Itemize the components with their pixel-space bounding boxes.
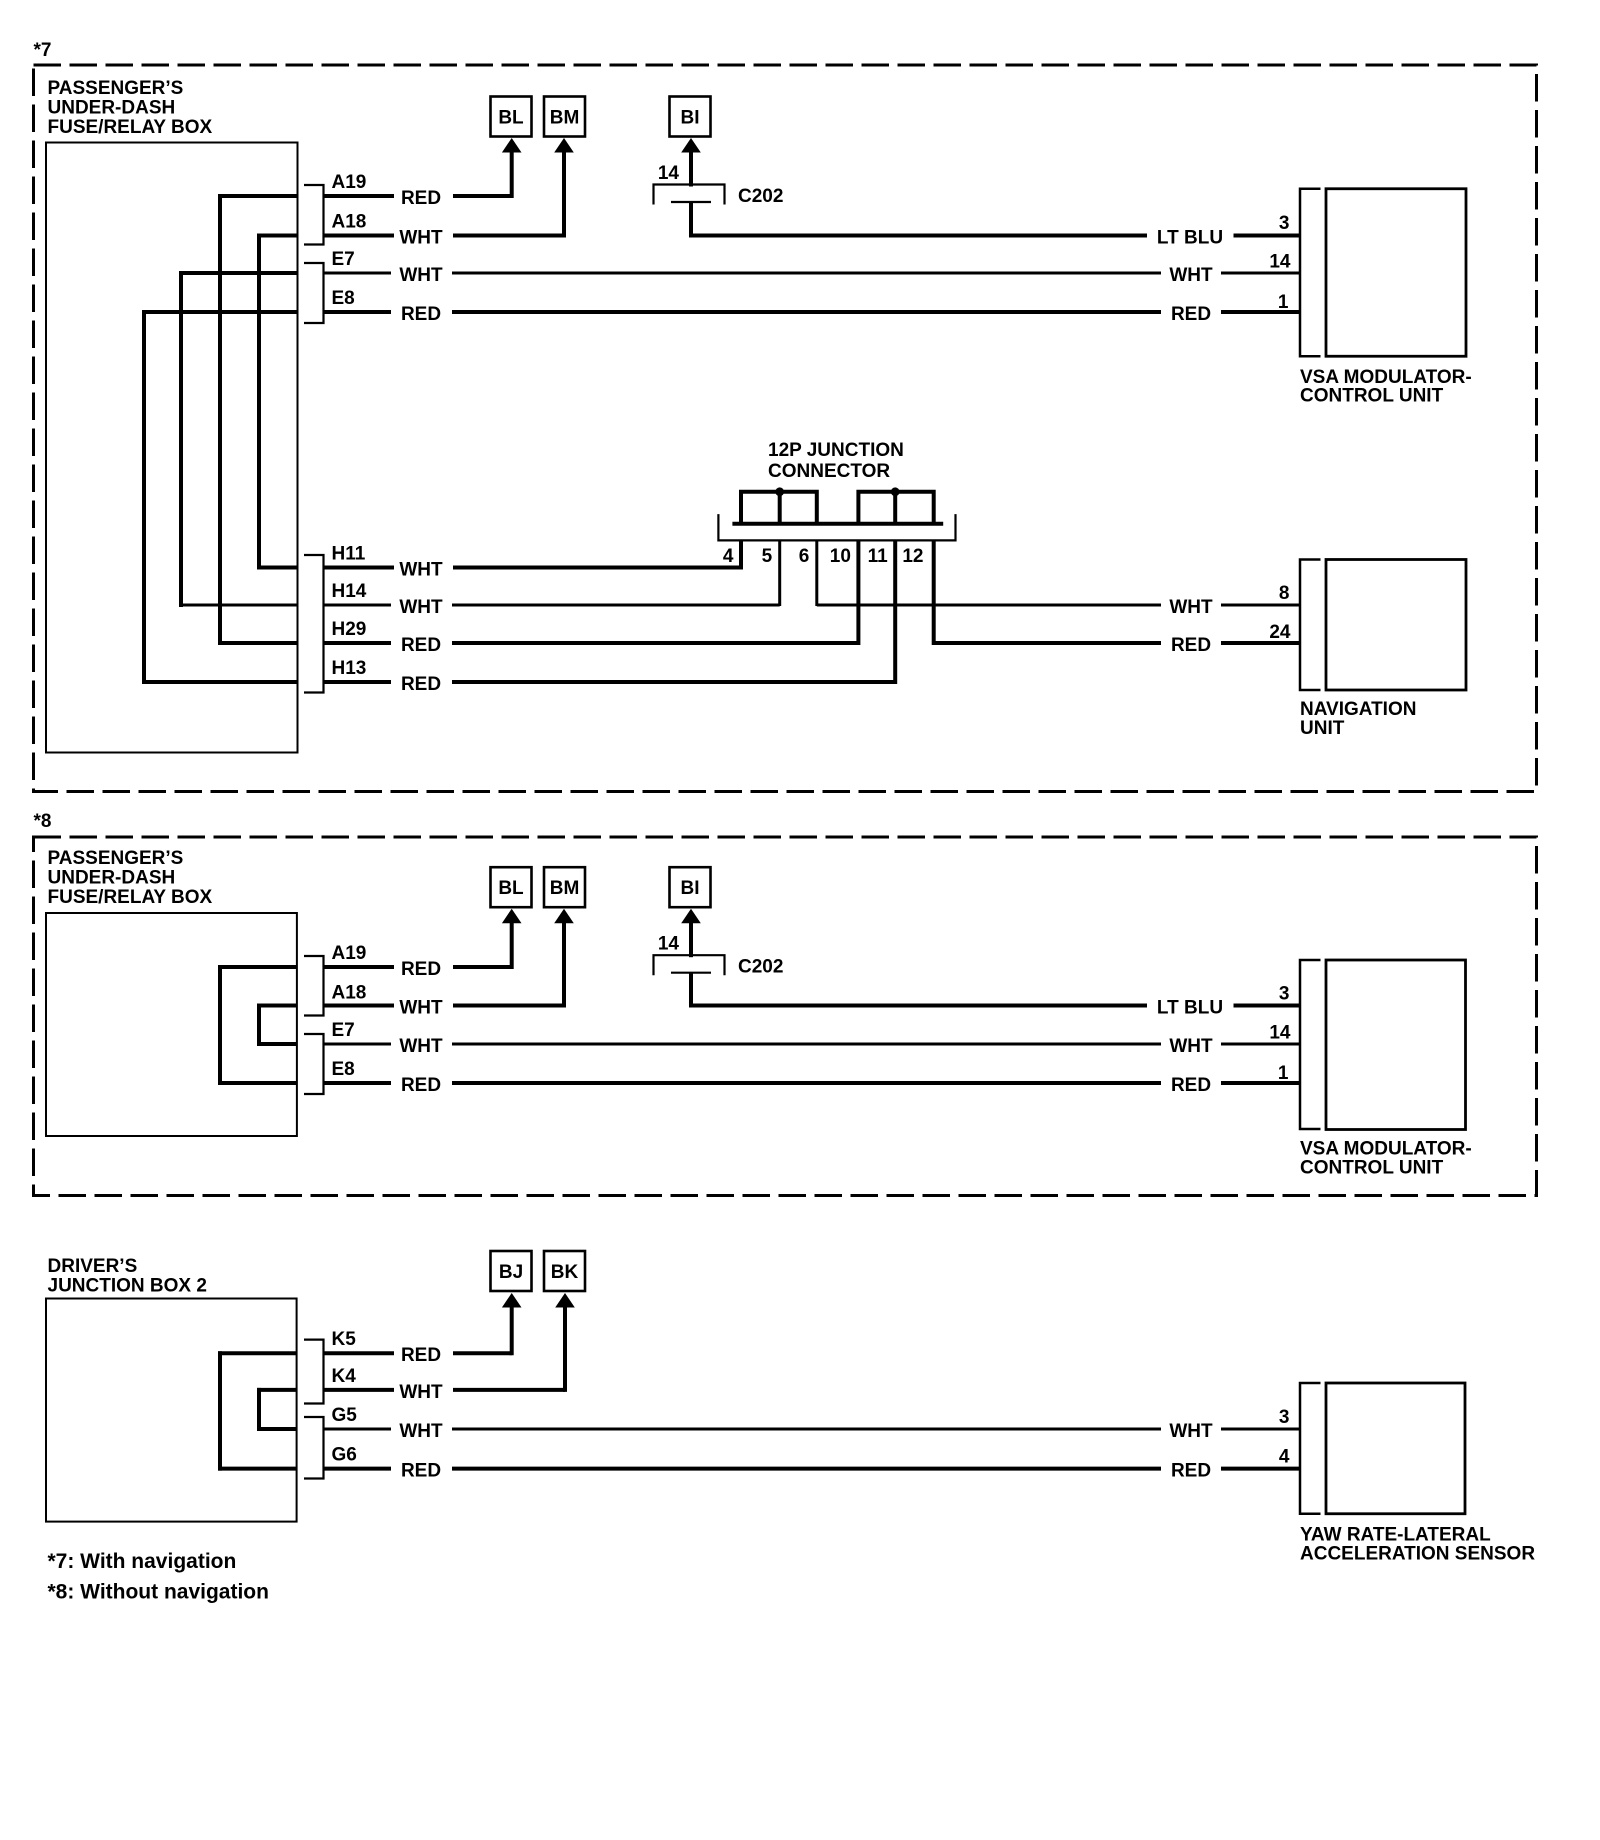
junction pin leg 5	[778, 540, 781, 606]
VSA connector bracket	[1300, 189, 1321, 357]
wire E7 WHT to VSA pin 14	[324, 272, 1301, 275]
svg-text:E7: E7	[332, 1020, 355, 1041]
12P junction connector jumper bridge right (pins 10-11-12)	[858, 492, 933, 524]
svg-text:WHT: WHT	[1169, 597, 1213, 618]
svg-text:4: 4	[1279, 1447, 1290, 1468]
svg-text:BL: BL	[498, 108, 524, 129]
svg-text:WHT: WHT	[399, 597, 443, 618]
svg-text:WHT: WHT	[399, 1382, 443, 1403]
navigation unit connector bracket	[1300, 560, 1321, 691]
internal wire A19-E8 (*8)	[218, 965, 298, 1085]
svg-text:G5: G5	[332, 1405, 358, 1426]
internal wire E7-H14	[179, 271, 298, 607]
junction dot pin 11 bridge	[891, 487, 900, 496]
svg-text:RED: RED	[1171, 304, 1211, 325]
svg-text:PASSENGER’S: PASSENGER’S	[48, 848, 184, 869]
svg-text:H13: H13	[332, 658, 367, 679]
svg-text:WHT: WHT	[1169, 265, 1213, 286]
wire H14 WHT to junction pin 5	[324, 604, 780, 607]
svg-text:BK: BK	[551, 1262, 579, 1283]
svg-text:DRIVER’S: DRIVER’S	[48, 1256, 138, 1277]
junction dot pin 5 bridge	[775, 487, 784, 496]
svg-text:K4: K4	[332, 1366, 357, 1387]
pin bracket A19/A18 (*8)	[304, 956, 324, 1016]
pin bracket G5/G6	[304, 1417, 324, 1479]
12P junction connector bus bar	[732, 522, 943, 526]
svg-text:4: 4	[723, 546, 734, 567]
navigation unit box	[1326, 560, 1466, 691]
svg-text:14: 14	[658, 934, 680, 955]
svg-text:JUNCTION BOX 2: JUNCTION BOX 2	[48, 1276, 207, 1297]
12P junction connector jumper bridge left (pins 4-5-6)	[741, 492, 817, 524]
wire K5 RED to connector BJ	[324, 1351, 512, 1355]
junction pin leg 11	[893, 540, 897, 684]
svg-text:BJ: BJ	[499, 1262, 523, 1283]
wire RED junction pin 12 to navigation pin 24	[934, 641, 1300, 645]
wire G6 RED to yaw sensor pin 4	[324, 1467, 1301, 1471]
svg-text:WHT: WHT	[1169, 1421, 1213, 1442]
svg-text:WHT: WHT	[399, 1036, 443, 1057]
svg-text:RED: RED	[401, 1345, 441, 1366]
svg-text:12P JUNCTION: 12P JUNCTION	[768, 440, 904, 461]
arrow into BL (*8)	[510, 919, 514, 969]
wire H13 RED to junction pin 11	[324, 680, 896, 684]
wire WHT junction pin 6 to navigation pin 8	[817, 604, 1300, 607]
svg-text:UNDER-DASH: UNDER-DASH	[48, 98, 176, 119]
svg-text:UNDER-DASH: UNDER-DASH	[48, 868, 176, 889]
svg-text:K5: K5	[332, 1329, 357, 1350]
wire A19 RED to connector BL	[324, 194, 512, 198]
svg-text:A18: A18	[332, 983, 367, 1004]
svg-text:CONNECTOR: CONNECTOR	[768, 461, 890, 482]
pin bracket A19/A18	[304, 185, 324, 245]
svg-text:H11: H11	[332, 544, 366, 565]
arrow into BI	[689, 148, 693, 187]
internal wire K4-G5	[257, 1388, 298, 1431]
svg-text:WHT: WHT	[399, 228, 443, 249]
svg-text:UNIT: UNIT	[1300, 718, 1345, 739]
off-page connector box BM (*8)	[544, 867, 585, 907]
svg-text:BI: BI	[681, 108, 700, 129]
svg-text:RED: RED	[401, 304, 441, 325]
off-page connector box BL (*8)	[491, 867, 532, 907]
junction pin leg 6	[815, 540, 818, 606]
wire E8 RED to VSA pin 1	[324, 310, 1301, 314]
svg-text:E7: E7	[332, 249, 355, 270]
arrow into BJ	[510, 1303, 514, 1355]
arrow into BM	[562, 148, 566, 238]
passenger's under-dash fuse/relay box outline	[46, 143, 298, 753]
internal wire A18-E7 (*8)	[257, 1004, 298, 1047]
svg-text:6: 6	[799, 546, 810, 567]
svg-text:FUSE/RELAY BOX: FUSE/RELAY BOX	[48, 887, 213, 908]
label VSA MODULATOR-CONTROL UNIT	[1300, 367, 1472, 407]
off-page connector box BJ	[491, 1251, 532, 1291]
svg-text:1: 1	[1278, 1063, 1289, 1084]
svg-text:RED: RED	[401, 959, 441, 980]
passenger's under-dash fuse/relay box outline (*8)	[46, 913, 297, 1136]
off-page connector box BI (*8)	[670, 867, 711, 907]
label DRIVER'S JUNCTION BOX 2	[48, 1256, 207, 1297]
svg-text:12: 12	[902, 546, 923, 567]
pin bracket K5/K4	[304, 1340, 324, 1404]
arrow into BI (*8)	[689, 919, 693, 958]
off-page connector box BM	[544, 97, 585, 137]
label YAW RATE-LATERAL ACCELERATION SENSOR	[1300, 1525, 1535, 1565]
svg-text:A19: A19	[332, 172, 367, 193]
dashed enclosure *8 (without navigation)	[34, 837, 1537, 1196]
svg-text:WHT: WHT	[399, 1421, 443, 1442]
svg-text:*7: With navigation: *7: With navigation	[48, 1550, 237, 1573]
pin bracket H11/H14/H29/H13	[304, 555, 324, 693]
pin bracket E7/E8	[304, 263, 324, 323]
svg-text:3: 3	[1279, 213, 1290, 234]
svg-text:E8: E8	[332, 1059, 355, 1080]
arrow into BL	[510, 148, 514, 198]
svg-text:A19: A19	[332, 943, 367, 964]
svg-text:CONTROL UNIT: CONTROL UNIT	[1300, 1157, 1444, 1178]
svg-text:*7: *7	[34, 40, 52, 61]
svg-text:E8: E8	[332, 288, 355, 309]
svg-text:11: 11	[868, 546, 889, 567]
VSA modulator-control unit box	[1326, 189, 1466, 357]
driver's junction box 2 outline	[46, 1299, 297, 1522]
arrow into BK	[563, 1303, 567, 1392]
yaw rate-lateral acceleration sensor box	[1326, 1383, 1465, 1514]
svg-text:WHT: WHT	[399, 560, 443, 581]
svg-text:RED: RED	[401, 1075, 441, 1096]
svg-text:BM: BM	[550, 878, 580, 899]
off-page connector box BL	[491, 97, 532, 137]
svg-text:A18: A18	[332, 212, 367, 233]
label 12P JUNCTION CONNECTOR	[768, 440, 904, 482]
wire H11 WHT to junction pin 4	[324, 566, 742, 570]
svg-text:ACCELERATION SENSOR: ACCELERATION SENSOR	[1300, 1544, 1535, 1565]
svg-text:CONTROL UNIT: CONTROL UNIT	[1300, 386, 1444, 407]
internal wire A19-H29	[218, 194, 298, 645]
svg-text:WHT: WHT	[399, 265, 443, 286]
wire A19 RED to connector BL (*8)	[324, 965, 512, 969]
svg-text:3: 3	[1279, 1407, 1290, 1428]
svg-text:*8: *8	[34, 811, 52, 832]
svg-text:5: 5	[762, 546, 773, 567]
svg-text:WHT: WHT	[399, 998, 443, 1019]
wire A18 WHT to connector BM (*8)	[324, 1004, 565, 1008]
svg-text:BM: BM	[550, 108, 580, 129]
wire H29 RED to junction pin 10	[324, 641, 859, 645]
label PASSENGER'S UNDER-DASH FUSE/RELAY BOX	[48, 78, 213, 138]
svg-text:WHT: WHT	[1169, 1036, 1213, 1057]
svg-text:8: 8	[1279, 583, 1290, 604]
junction pin leg 12	[932, 540, 936, 645]
dashed enclosure *7 (with navigation)	[34, 65, 1537, 792]
label VSA MODULATOR-CONTROL UNIT (*8)	[1300, 1139, 1472, 1179]
svg-text:RED: RED	[1171, 1461, 1211, 1482]
wire E8 RED to VSA pin 1 (*8)	[324, 1081, 1301, 1085]
svg-text:LT BLU: LT BLU	[1157, 998, 1223, 1019]
svg-text:PASSENGER’S: PASSENGER’S	[48, 78, 184, 99]
wire E7 WHT to VSA pin 14 (*8)	[324, 1043, 1301, 1046]
pin bracket E7/E8 (*8)	[304, 1034, 324, 1094]
internal wire K5-G6	[218, 1351, 298, 1470]
svg-text:3: 3	[1279, 984, 1290, 1005]
off-page connector box BI	[670, 97, 711, 137]
svg-text:YAW RATE-LATERAL: YAW RATE-LATERAL	[1300, 1525, 1491, 1546]
12P junction connector body bracket	[718, 514, 955, 540]
svg-text:RED: RED	[1171, 635, 1211, 656]
junction pin leg 4	[739, 540, 743, 569]
wire G5 WHT to yaw sensor pin 3	[324, 1428, 1301, 1431]
in-line connector C202 (*8)	[654, 955, 725, 975]
junction pin leg 10	[856, 540, 860, 645]
VSA modulator-control unit box (*8)	[1326, 960, 1466, 1130]
svg-text:24: 24	[1269, 622, 1291, 643]
label NAVIGATION UNIT	[1300, 699, 1416, 739]
svg-text:RED: RED	[401, 188, 441, 209]
arrow into BM (*8)	[562, 919, 566, 1008]
wire A18 WHT to connector BM	[324, 234, 565, 238]
svg-text:H14: H14	[332, 581, 367, 602]
svg-text:BI: BI	[681, 878, 700, 899]
in-line connector C202	[654, 185, 725, 205]
svg-text:H29: H29	[332, 619, 367, 640]
svg-text:LT BLU: LT BLU	[1157, 228, 1223, 249]
wire K4 WHT to connector BK	[324, 1388, 566, 1392]
wire LT BLU C202 to VSA pin 3 (*8)	[689, 973, 1300, 1008]
label PASSENGER'S UNDER-DASH FUSE/RELAY BOX (*8)	[48, 848, 213, 908]
svg-text:C202: C202	[738, 186, 783, 207]
svg-text:14: 14	[658, 163, 680, 184]
yaw sensor connector bracket	[1300, 1383, 1321, 1514]
svg-text:BL: BL	[498, 878, 524, 899]
svg-text:RED: RED	[401, 674, 441, 695]
wire LT BLU C202 to VSA pin 3	[689, 202, 1300, 238]
svg-text:10: 10	[830, 546, 851, 567]
internal wire E8-H13	[142, 310, 298, 684]
svg-text:RED: RED	[1171, 1075, 1211, 1096]
svg-text:C202: C202	[738, 957, 783, 978]
svg-text:RED: RED	[401, 1461, 441, 1482]
svg-text:RED: RED	[401, 635, 441, 656]
svg-text:14: 14	[1269, 1023, 1291, 1044]
svg-text:1: 1	[1278, 292, 1289, 313]
internal wire A18-H11	[257, 234, 298, 570]
svg-text:14: 14	[1269, 252, 1291, 273]
VSA connector bracket (*8)	[1300, 960, 1321, 1129]
off-page connector box BK	[544, 1251, 585, 1291]
svg-text:*8: Without navigation: *8: Without navigation	[48, 1581, 269, 1604]
svg-text:NAVIGATION: NAVIGATION	[1300, 699, 1416, 720]
svg-text:G6: G6	[332, 1445, 357, 1466]
svg-text:FUSE/RELAY BOX: FUSE/RELAY BOX	[48, 117, 213, 138]
